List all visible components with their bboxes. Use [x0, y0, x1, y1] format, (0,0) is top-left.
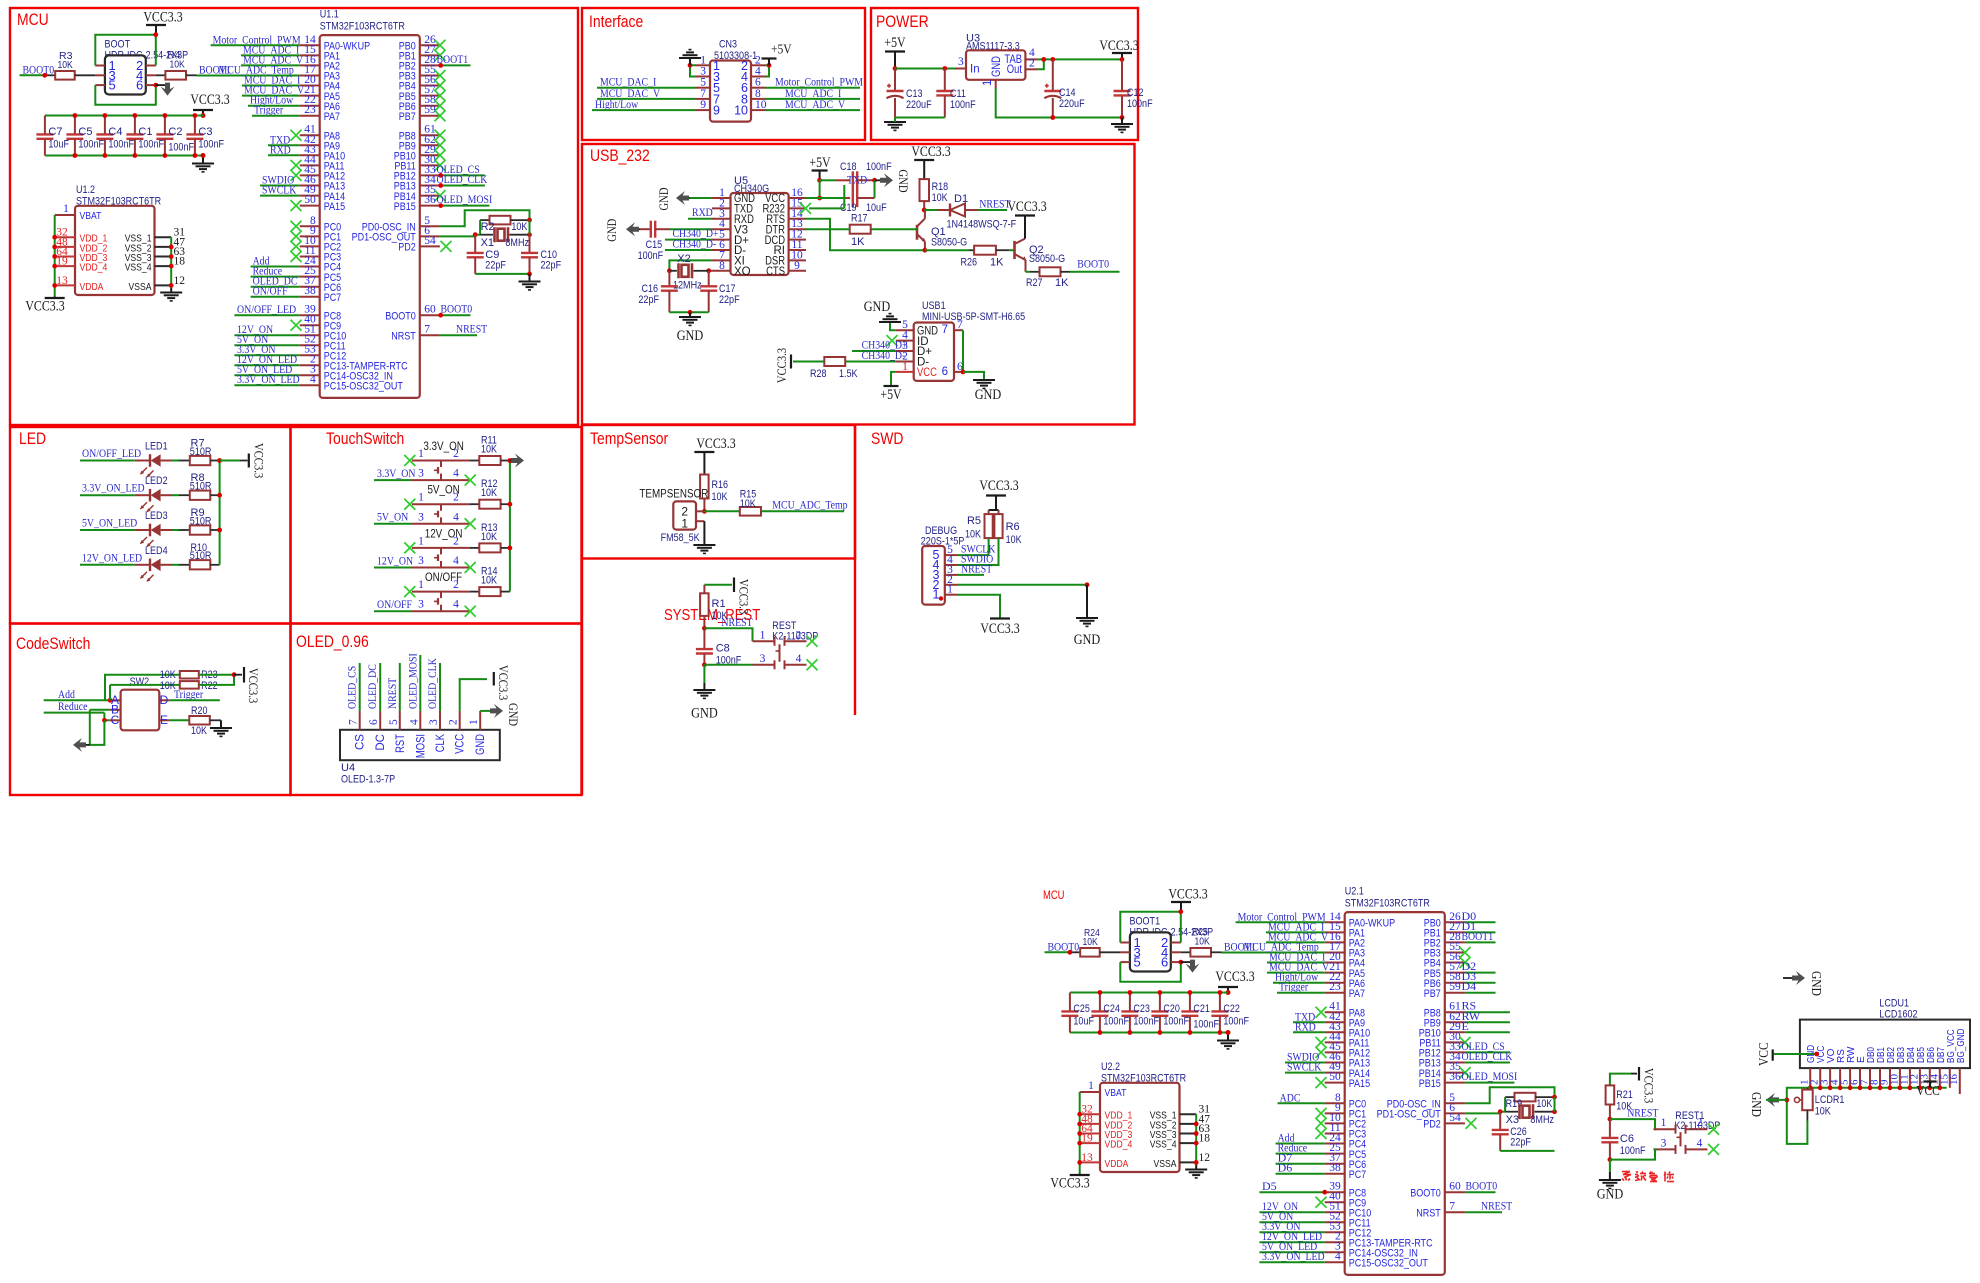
junction D5 at PC8	[1322, 1190, 1327, 1195]
svg-text:VCC3.3: VCC3.3	[1050, 1176, 1089, 1192]
capacitor C23	[1121, 993, 1159, 1033]
ic U1.1 pin PA2 (16)	[300, 54, 340, 73]
wire 3.3V_ON_LED to PC15-OSC32_OUT	[1259, 1261, 1324, 1263]
svg-text:60: 60	[424, 304, 436, 316]
connector USB1 pin6 shield	[942, 361, 963, 378]
no-connect X PB11	[435, 160, 446, 171]
svg-text:R21: R21	[1616, 1089, 1633, 1101]
connector USB1 pin D- (2)	[896, 351, 929, 369]
svg-text:4: 4	[1697, 1137, 1703, 1149]
power VCC3.3 codeswitch	[234, 667, 261, 703]
svg-text:BOOT0: BOOT0	[1466, 1179, 1498, 1193]
junction decap C20 bottom	[1158, 1030, 1163, 1035]
ic SW2 pin C	[110, 713, 121, 727]
power VCC3.3 below U2.2	[1050, 1174, 1089, 1192]
power VCC3.3 below U1.2	[25, 297, 64, 315]
ic U2.1 pin PA2 (16)	[1325, 931, 1365, 950]
junction U3 out a	[1041, 57, 1046, 62]
connector LCDU1 pin RW (5)	[1839, 1046, 1858, 1088]
ic U1.1 pin PB10 (29)	[394, 144, 440, 163]
net label ON/OFF	[253, 284, 288, 298]
capacitor C10	[521, 235, 561, 274]
junction OLED_MOSI PB15	[438, 203, 443, 208]
svg-text:4: 4	[1335, 1251, 1341, 1263]
power VCC LCD right	[1916, 1082, 1940, 1100]
svg-text:LCDR1: LCDR1	[1815, 1094, 1845, 1106]
svg-text:3: 3	[958, 56, 964, 68]
junction C12 gnd	[1120, 115, 1125, 120]
svg-text:50: 50	[304, 194, 316, 206]
sensor TEMPSENSOR body	[673, 501, 696, 529]
net label 12V_ON	[377, 553, 413, 567]
no-connect X PA15	[1316, 1077, 1327, 1088]
svg-text:MCU_ADC_Temp: MCU_ADC_Temp	[772, 498, 847, 512]
svg-text:6: 6	[755, 77, 761, 89]
net label D4 at PB7	[1462, 979, 1477, 993]
net label SWCLK	[262, 183, 297, 197]
no-connect X S2 pin1	[404, 499, 415, 510]
wire 12V_ON S3	[374, 567, 412, 569]
wire ON/OFF_LED to PC8	[234, 314, 299, 316]
capacitor C26	[1492, 1112, 1531, 1151]
switch S2	[412, 492, 470, 524]
section title Interface	[589, 12, 643, 31]
ic U2.1 pin PB15 (36)	[1419, 1071, 1465, 1090]
svg-text:10K: 10K	[740, 498, 757, 510]
ic U2.1 pin PB5 (57)	[1424, 961, 1465, 980]
resistor R7	[172, 438, 220, 466]
junction decap C22 top	[1218, 990, 1223, 995]
svg-text:60: 60	[1449, 1181, 1461, 1193]
svg-text:C18: C18	[840, 161, 857, 173]
wire touch bus	[509, 461, 511, 592]
ic U2.1 pin PA4 (20)	[1325, 951, 1365, 970]
capacitor C25	[1061, 993, 1094, 1033]
connector CN3 pin 9	[695, 99, 720, 118]
no-connect X REST1 pin4	[1708, 1144, 1719, 1155]
svg-text:100nF: 100nF	[108, 139, 134, 151]
svg-text:OLED_MOSI: OLED_MOSI	[405, 653, 419, 709]
svg-text:3.3V_ON_LED: 3.3V_ON_LED	[82, 481, 145, 495]
junction header pin6	[1178, 960, 1183, 965]
svg-text:22pF: 22pF	[541, 260, 562, 272]
wire BOOT1 from PB2	[440, 64, 471, 66]
ic U1.1 pin PA13 (46)	[300, 174, 345, 193]
resistor R2 labels	[481, 221, 528, 233]
junction decap C22 bottom	[1218, 1030, 1223, 1035]
section box OLED_0.96	[291, 624, 582, 796]
ic U2.1 pin PD2 (54)	[1423, 1112, 1465, 1131]
wire OLED_MOSI from PB15	[440, 205, 490, 207]
svg-text:220uF: 220uF	[906, 99, 932, 111]
resistor R18	[920, 179, 949, 210]
net label MCU_ADC_V	[243, 52, 303, 66]
wire OLED_CLK from PB13	[1465, 1062, 1510, 1064]
svg-text:6: 6	[368, 719, 380, 725]
ground earth sysrest	[691, 690, 718, 722]
svg-text:6: 6	[136, 78, 143, 93]
wire U4 VCC	[460, 679, 487, 711]
ground earth USB1 shield	[973, 380, 1001, 403]
wire 3.3V_ON to PC12	[234, 354, 299, 356]
ground arrow U5 pin1	[656, 187, 712, 210]
junction Reduce	[102, 718, 107, 723]
wire xtal bottom open	[1500, 1150, 1554, 1152]
svg-text:13: 13	[56, 275, 68, 287]
section title SYSTEM_REST	[664, 607, 760, 624]
net label Add	[58, 687, 75, 701]
wire Add	[44, 699, 110, 701]
ic U2.2 pin VBAT	[1080, 1080, 1127, 1099]
svg-text:R6: R6	[1006, 521, 1020, 533]
capacitor C5	[66, 116, 104, 156]
junction LCD pin12	[1918, 1085, 1923, 1090]
junction LCD pin14	[1937, 1085, 1942, 1090]
svg-text:2: 2	[1029, 58, 1035, 70]
ic U1.2 VDDA pin	[55, 275, 104, 293]
svg-text:10K: 10K	[965, 529, 982, 541]
wire BOOT0 from pin60	[440, 314, 471, 316]
svg-text:BOOT0: BOOT0	[385, 310, 416, 322]
ground earth below U2.2	[1185, 1165, 1207, 1178]
svg-text:7: 7	[942, 324, 948, 336]
net label CH340_D- USB1	[862, 348, 906, 362]
svg-text:12: 12	[174, 275, 186, 287]
junction decap C2 top	[163, 113, 168, 118]
svg-text:5: 5	[1134, 955, 1141, 970]
svg-text:10K: 10K	[1815, 1106, 1832, 1118]
ic SW2 body	[121, 690, 160, 731]
junction decap C1 bottom	[133, 153, 138, 158]
wire OLED_MOSI from PB15	[1465, 1082, 1515, 1084]
net label MCU_ADC_I	[1268, 919, 1324, 933]
junction R1 bottom	[702, 626, 707, 631]
resistor R1	[700, 585, 728, 629]
svg-text:10K: 10K	[481, 575, 498, 587]
net label MCU_DAC_I	[244, 73, 300, 87]
ic U2.1 pin BOOT0 (60)	[1410, 1181, 1465, 1200]
junction decap C21 top	[1188, 990, 1193, 995]
wire LED vcc bus	[219, 461, 221, 565]
junction LCD pin4	[1838, 1085, 1843, 1090]
svg-text:2: 2	[1697, 1117, 1703, 1129]
wire decap top rail	[1070, 992, 1224, 994]
wire 5V_ON to PC11	[234, 344, 299, 346]
ic U1.1 pin PC6 (37)	[300, 275, 342, 294]
svg-text:VBAT: VBAT	[1105, 1087, 1127, 1099]
junction CN3 +5V	[767, 63, 772, 68]
wire CN3 pin1 gnd	[690, 65, 695, 76]
ic U5 pin R232 (15)	[763, 197, 807, 215]
ic U1.1 pin PA1 (15)	[300, 44, 340, 63]
junction decap C3 top	[193, 113, 198, 118]
net label Reduce	[253, 264, 283, 278]
wire MCU_ADC_I to PA1	[1266, 931, 1325, 933]
svg-text:8: 8	[719, 260, 725, 272]
svg-text:1: 1	[1661, 1117, 1667, 1129]
ground arrow floating	[1783, 971, 1823, 996]
svg-text:2: 2	[453, 579, 459, 591]
wire NREST from NRST	[440, 334, 477, 336]
net label 12V_ON_LED	[237, 352, 297, 366]
junction U1.2 vss	[169, 264, 174, 269]
net label MCU_DAC_I	[1269, 950, 1325, 964]
power VCC3.3 above header	[143, 10, 182, 35]
wire MCU_DAC_I to PA4	[242, 85, 300, 87]
svg-text:C20: C20	[1163, 1003, 1180, 1015]
wire C6 gnd	[1609, 1160, 1611, 1180]
connector USB1 pin D+ (3)	[896, 340, 932, 358]
switch S3 label	[425, 526, 463, 540]
svg-text:VDD_4: VDD_4	[80, 262, 108, 274]
net label SWDIO	[1287, 1050, 1320, 1064]
svg-text:SWCLK: SWCLK	[262, 183, 297, 197]
svg-text:OLED-1.3-7P: OLED-1.3-7P	[341, 774, 395, 786]
net label OLED_MOSI U4	[405, 653, 419, 709]
ic U2.1 pin PC0 (8)	[1325, 1092, 1367, 1111]
wire 12V_ON_LED	[80, 564, 135, 566]
resistor R14	[470, 566, 510, 597]
resistor R22	[160, 680, 218, 692]
wire decap bottom rail	[45, 155, 199, 157]
capacitor C12	[1114, 59, 1153, 117]
resistor R24 labels	[1083, 927, 1100, 948]
svg-text:10uF: 10uF	[866, 202, 887, 214]
section box USB_232	[582, 144, 1135, 425]
svg-text:U2.2: U2.2	[1101, 1061, 1120, 1073]
resistor R20	[189, 705, 210, 737]
junction BOOT1 PB2	[438, 63, 443, 68]
ic U5 pin RXD (3)	[712, 208, 754, 226]
power VCC3.3 above header	[1168, 887, 1207, 912]
svg-text:R26: R26	[961, 257, 978, 269]
svg-text:100nF: 100nF	[1103, 1016, 1129, 1028]
junction decap C24 bottom	[1098, 1030, 1103, 1035]
svg-text:510R: 510R	[190, 446, 212, 458]
capacitor C11	[936, 69, 976, 118]
ground earth R20	[210, 728, 232, 736]
junction U1.2 vdd	[52, 264, 57, 269]
ic U1.1 pin PB9 (62)	[399, 134, 440, 153]
transistor Q1 labels	[931, 226, 967, 249]
svg-text:XO: XO	[734, 266, 751, 278]
no-connect X S1 pin1	[404, 455, 415, 466]
section title SWD	[871, 429, 904, 448]
wire U1.2 vss bus	[170, 237, 172, 288]
net label MCU_ADC_Temp out	[772, 498, 847, 512]
svg-text:VCC3.3: VCC3.3	[979, 478, 1018, 494]
resistor R2	[480, 216, 529, 225]
wire DTR to R17	[806, 228, 850, 230]
wire NREST to REST1	[1610, 1119, 1657, 1129]
junction R2 right	[527, 218, 532, 223]
svg-text:23: 23	[304, 104, 316, 116]
wire USB1 shield	[962, 330, 964, 372]
net label MCU_DAC_I CN3	[600, 75, 656, 89]
svg-text:CodeSwitch: CodeSwitch	[16, 634, 90, 653]
ic SW2 pin E	[159, 713, 169, 727]
wire D4 from PB7	[1465, 992, 1496, 994]
ic U1.1 pin PA4 (20)	[300, 74, 340, 93]
wire sensor pin1 gnd	[703, 521, 705, 545]
wire REST1 pin3	[1610, 1149, 1657, 1159]
net label BOOT0	[1048, 940, 1080, 954]
svg-text:GND: GND	[677, 328, 704, 344]
wire MCU_DAC_V to PA5	[242, 95, 300, 97]
wire SW2 BC gnd	[90, 710, 105, 745]
capacitor C24	[1091, 993, 1129, 1033]
net label CH340_D+ USB1	[862, 338, 908, 352]
net label D6	[1278, 1161, 1293, 1175]
svg-text:22pF: 22pF	[638, 294, 659, 306]
svg-text:MOSI: MOSI	[415, 734, 427, 758]
no-connect X PA11	[1316, 1037, 1327, 1048]
ic U2.1 pin PC8 (39)	[1325, 1181, 1367, 1200]
svg-text:1: 1	[933, 588, 940, 602]
svg-text:NREST: NREST	[1627, 1106, 1659, 1120]
net label 5V_ON_LED	[82, 516, 137, 530]
svg-text:1: 1	[418, 448, 424, 460]
connector USB1 pin ID (4)	[896, 330, 929, 348]
svg-text:C6: C6	[1620, 1133, 1634, 1145]
net label BOOT1 at PA3	[199, 63, 231, 77]
no-connect X PB14	[435, 190, 446, 201]
junction OLED_CS PB12	[438, 173, 443, 178]
power VCC LCD left	[1757, 1042, 1817, 1066]
wire Motor_Control_PWM to PA0-WKUP	[211, 44, 300, 46]
svg-text:CS: CS	[355, 734, 367, 750]
svg-text:RXD: RXD	[692, 205, 713, 219]
no-connect X PB3	[1460, 947, 1471, 958]
connector USB1 labels	[922, 300, 1025, 323]
ic U2.1 pin PC13-TAMPER-RTC (2)	[1325, 1231, 1433, 1250]
capacitor C18	[820, 161, 892, 189]
ic U2.2 body	[1100, 1083, 1180, 1172]
svg-text:VCC: VCC	[1916, 1084, 1940, 1099]
net label 3.3V_ON	[1262, 1219, 1301, 1233]
svg-text:R17: R17	[851, 213, 868, 225]
junction LCD pin1	[1808, 1085, 1813, 1090]
svg-text:OLED_MOSI: OLED_MOSI	[437, 192, 493, 206]
wire U3 TAB to VCC	[1037, 58, 1122, 60]
svg-text:VCC3.3: VCC3.3	[1168, 887, 1207, 903]
net label BOOT1 at PB2	[1462, 929, 1494, 943]
svg-text:3: 3	[760, 653, 766, 665]
svg-text:VBAT: VBAT	[80, 210, 102, 222]
wire R19 left leg	[1500, 1097, 1505, 1112]
sensor pin 1	[681, 517, 704, 531]
svg-text:VSSA: VSSA	[1154, 1158, 1177, 1170]
svg-text:GND: GND	[896, 169, 911, 192]
svg-text:100nF: 100nF	[198, 139, 224, 151]
svg-text:10K: 10K	[481, 444, 498, 456]
svg-text:NREST: NREST	[979, 197, 1011, 211]
svg-text:VCC3.3: VCC3.3	[252, 443, 267, 478]
svg-text:POWER: POWER	[876, 12, 929, 31]
svg-text:VCC3.3: VCC3.3	[1642, 1068, 1657, 1103]
svg-text:R22: R22	[201, 680, 218, 692]
ground earth tempsensor	[693, 545, 715, 553]
crystal X3	[1505, 1104, 1554, 1119]
no-connect X PB4	[1460, 957, 1471, 968]
svg-text:BOOT0: BOOT0	[1077, 256, 1109, 270]
ic U1.2 body	[75, 206, 155, 295]
junction header pin6	[153, 83, 158, 88]
ic U2.1 pin PB14 (35)	[1419, 1061, 1465, 1080]
junction VCC3.3 wire	[1120, 57, 1125, 62]
net label RXD	[270, 142, 291, 156]
junction LCD pin11	[1908, 1085, 1913, 1090]
svg-text:D1: D1	[954, 193, 968, 205]
ic U1.1 pin PB4 (56)	[399, 74, 440, 93]
svg-text:100nF: 100nF	[1193, 1019, 1219, 1031]
connector U4 pin VCC (2)	[448, 711, 467, 754]
wire Reduce	[44, 713, 110, 721]
no-connect X PC1	[1316, 1108, 1327, 1119]
wire MCU_ADC_I to PA1	[241, 54, 300, 56]
connector U4 pin CS (7)	[348, 711, 367, 750]
connector LCDU1 pin DB4 (11)	[1898, 1047, 1917, 1088]
connector CN3 pin 6	[741, 77, 766, 96]
svg-text:5V_ON_LED: 5V_ON_LED	[82, 516, 137, 530]
svg-text:10K: 10K	[481, 487, 498, 499]
svg-text:E: E	[1462, 1019, 1469, 1033]
wire OSC_IN loop	[1465, 1087, 1555, 1103]
net label 5V_ON	[237, 332, 268, 346]
wire DEBUG pin1 vcc	[957, 595, 1000, 619]
power +5V above CN3	[762, 43, 792, 66]
resistor R4 labels	[167, 49, 185, 71]
ic U2.1 pin PA12 (45)	[1325, 1041, 1370, 1060]
net label TXD	[270, 132, 290, 146]
wire SWCLK to PA14	[260, 195, 300, 197]
svg-text:Trigger: Trigger	[174, 687, 203, 701]
svg-text:100nF: 100nF	[866, 161, 892, 173]
wire RS from PB8	[1465, 1011, 1510, 1013]
ic U2.1 pin PA3 (17)	[1325, 941, 1365, 960]
ic U2.1 pin PA6 (22)	[1325, 971, 1365, 990]
svg-text:PB15: PB15	[394, 201, 416, 213]
svg-text:ON/OFF_LED: ON/OFF_LED	[82, 446, 141, 460]
ic U5 pin DTR (13)	[766, 218, 806, 236]
ic U1.1 pin PB14 (35)	[394, 184, 440, 203]
connector LCDU1 pin BG_VCC (15)	[1938, 1029, 1957, 1088]
svg-text:1: 1	[63, 203, 69, 215]
svg-text:10K: 10K	[1195, 936, 1210, 948]
svg-text:10K: 10K	[932, 192, 949, 204]
svg-text:3: 3	[418, 555, 424, 567]
svg-text:C5: C5	[78, 126, 92, 138]
wire U5 VCC to C19	[806, 197, 846, 199]
junction R18 bottom	[922, 208, 927, 213]
wire Add to PC4	[1276, 1143, 1325, 1145]
ic U1.1 pin PC8 (39)	[300, 304, 342, 323]
power VCC3.3 bottom reset	[1639, 1067, 1657, 1103]
connector DEBUG pin 4	[933, 554, 957, 572]
svg-text:1: 1	[902, 361, 908, 373]
svg-text:PC15-OSC32_OUT: PC15-OSC32_OUT	[324, 380, 403, 392]
connector DEBUG pin 3	[933, 564, 957, 582]
junction LCD pin5	[1848, 1085, 1853, 1090]
no-connect X PA8	[291, 130, 302, 141]
wire R20 gnd	[210, 720, 221, 728]
svg-text:R2: R2	[481, 221, 495, 233]
wire D0 from PB0	[1465, 921, 1496, 923]
net label SWDIO	[262, 173, 295, 187]
wire C15 to V3	[670, 228, 712, 230]
svg-text:1: 1	[681, 517, 688, 531]
wire OLED_CS from PB12	[1465, 1051, 1510, 1053]
